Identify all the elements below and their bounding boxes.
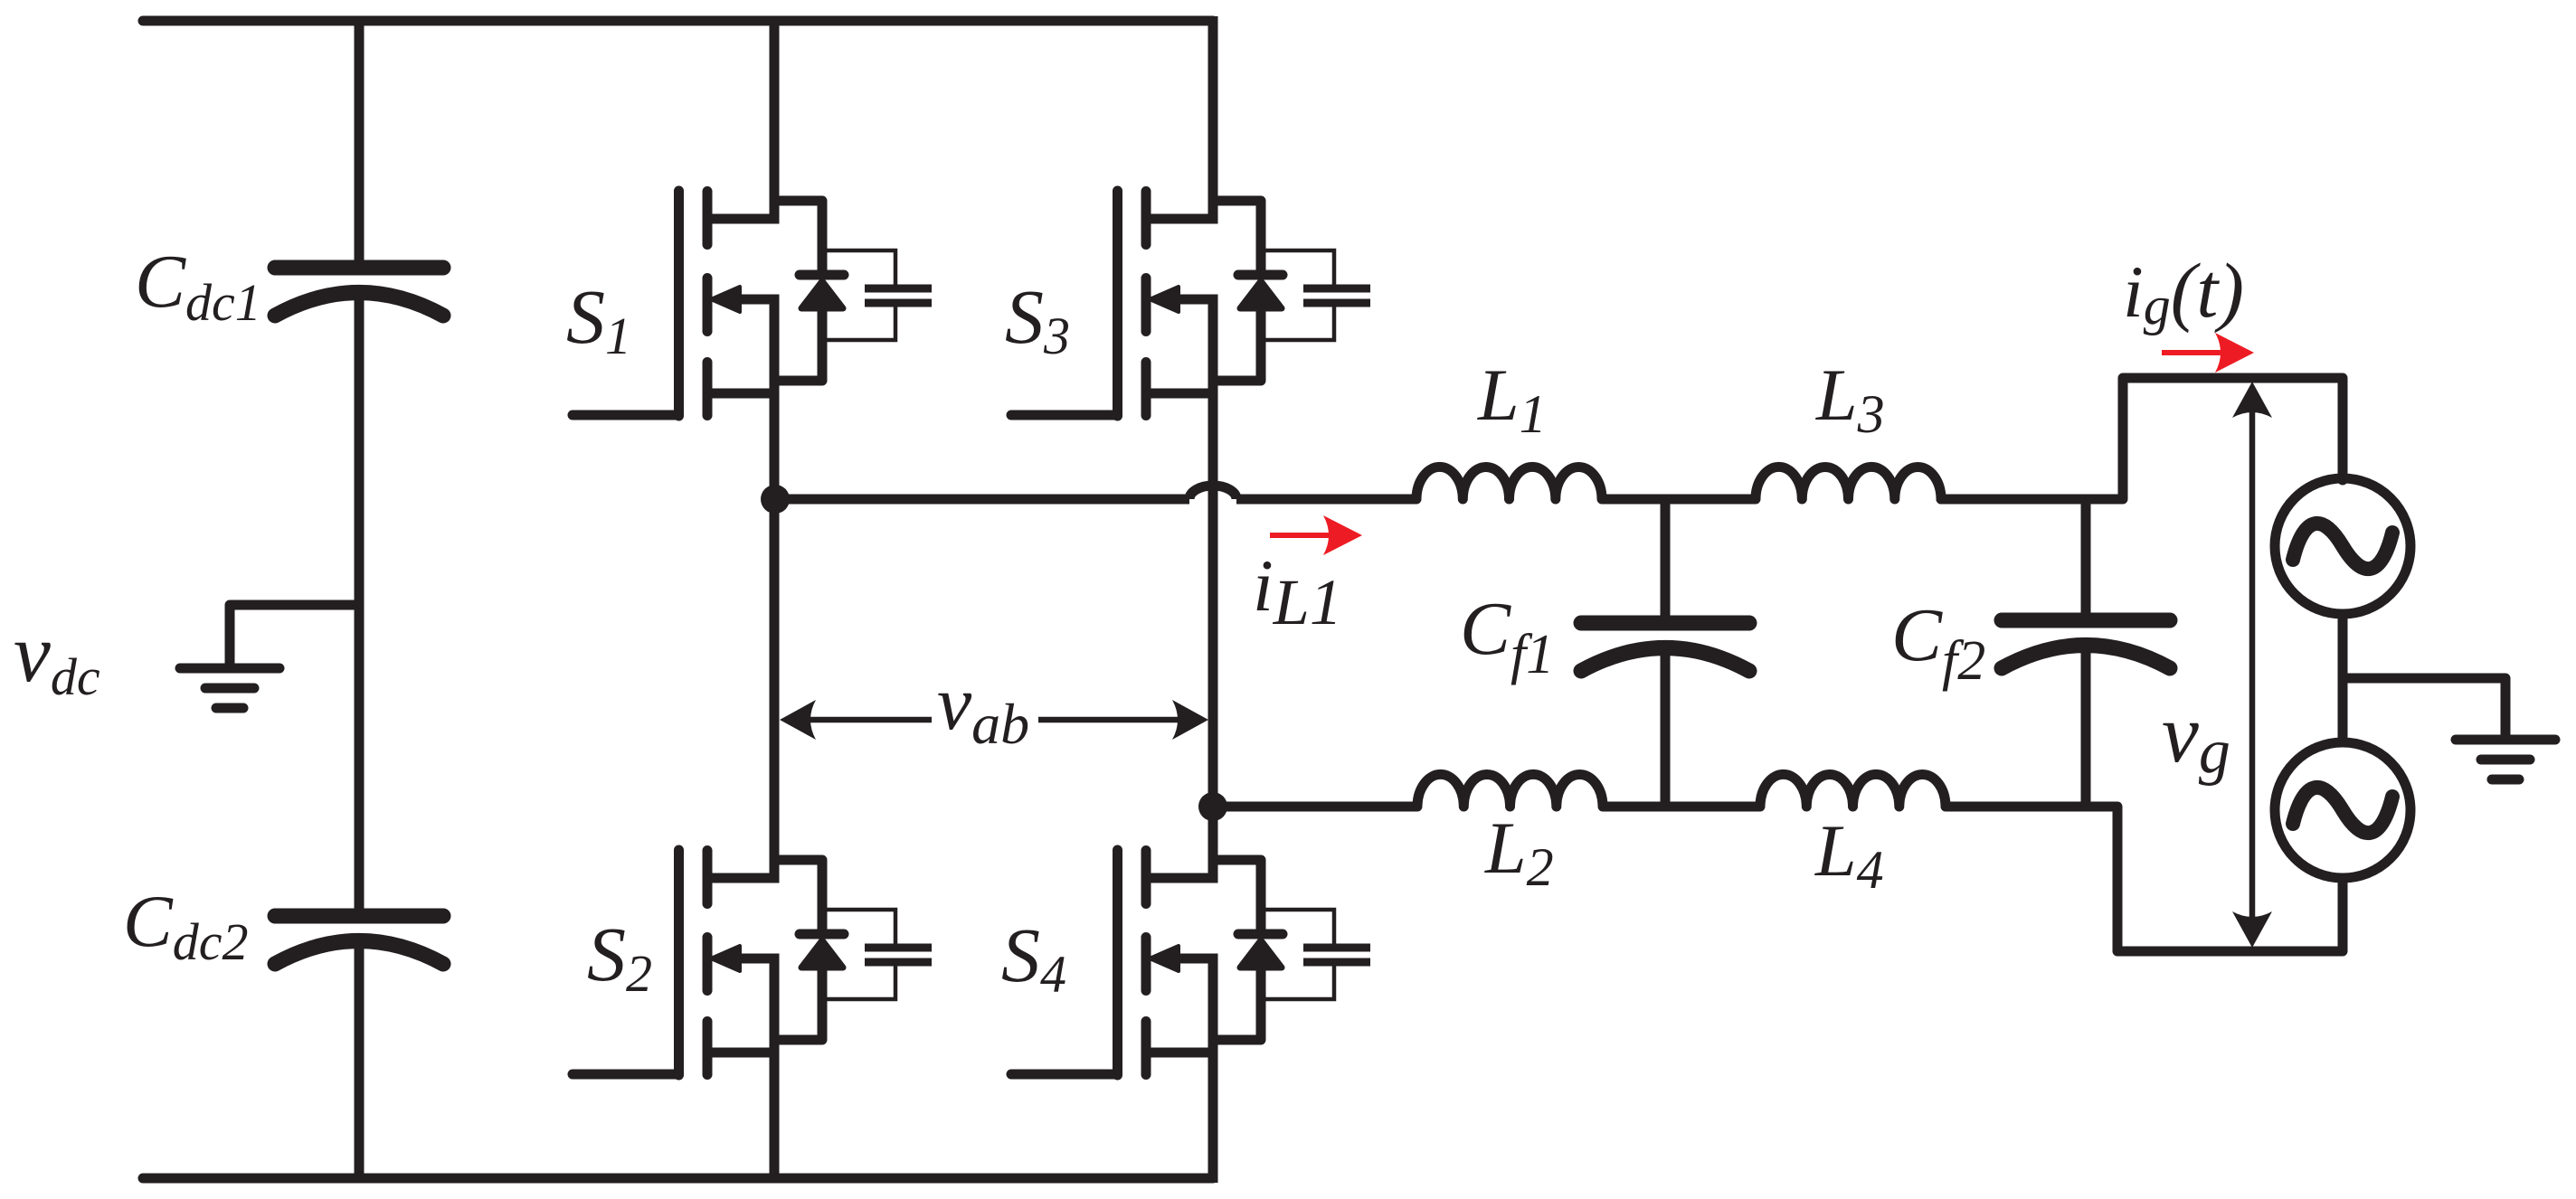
inductor L3 — [1756, 467, 1941, 499]
ac source vg top — [2275, 478, 2410, 614]
svg-text:L1: L1 — [1477, 354, 1547, 444]
wire: right leg drain of S3 — [1208, 16, 1218, 223]
vab dimension line right — [1038, 717, 1178, 723]
wire: Cf2 branch lower — [2081, 643, 2091, 807]
wire: grid loop bottom — [2080, 807, 2343, 951]
wire: node a to hop — [775, 495, 1189, 505]
svg-text:L2: L2 — [1484, 807, 1554, 897]
wire: Cf2 branch upper — [2081, 499, 2091, 615]
wire: right leg node b to S4 drain — [1208, 807, 1218, 883]
node a junction dot — [761, 485, 790, 514]
wire: dc-link branch lower — [355, 939, 365, 1183]
capacitor Cf1 — [1581, 623, 1749, 671]
transistor S4 — [1011, 850, 1370, 1075]
wire: L3 to grid loop corner — [1941, 378, 2343, 499]
red arrow iL1 — [1270, 533, 1330, 538]
svg-text:vdc: vdc — [14, 607, 100, 706]
ground (dc midpoint) — [180, 668, 279, 708]
capacitor Cdc1 — [275, 268, 443, 316]
svg-text:S1: S1 — [566, 273, 631, 365]
inductor L1 — [1416, 467, 1602, 499]
wire: between ac sources — [2338, 610, 2348, 746]
svg-text:Cf1: Cf1 — [1460, 587, 1554, 685]
svg-text:vab: vab — [937, 659, 1029, 756]
svg-text:S2: S2 — [587, 911, 652, 1003]
svg-text:Cf2: Cf2 — [1891, 593, 1985, 692]
bottom rail (- dc bus) — [143, 1174, 1213, 1184]
vg dimension bottom arrowhead — [2232, 911, 2272, 948]
wire: dc-link branch upper — [355, 16, 365, 262]
wire: left leg node a to S2 drain — [770, 499, 780, 883]
vab dimension line left — [810, 717, 932, 723]
wire: left leg S1 source to node a — [770, 393, 780, 504]
svg-text:iL1: iL1 — [1253, 544, 1342, 638]
ground (grid neutral) — [2456, 740, 2555, 779]
wire: dc-link branch middle — [355, 290, 365, 911]
vab dimension left arrowhead — [780, 700, 816, 740]
inductor L2 — [1417, 774, 1603, 807]
svg-text:L4: L4 — [1814, 809, 1884, 900]
wire: hop to L1 — [1236, 495, 1416, 505]
capacitor Cdc2 — [275, 916, 443, 964]
ac source vg bottom — [2275, 742, 2410, 878]
wire: Cf1 branch lower — [1661, 646, 1671, 807]
vg dimension line — [2249, 409, 2256, 920]
inductor L4 — [1760, 774, 1946, 807]
wire: ground tap — [230, 605, 359, 663]
svg-text:Cdc2: Cdc2 — [123, 880, 248, 971]
vab dimension right arrowhead — [1172, 700, 1208, 740]
wire: node b to L2 — [1213, 802, 1417, 812]
svg-text:S3: S3 — [1005, 273, 1070, 365]
wire: L4 to Cf2 bottom — [1946, 802, 2086, 812]
wire: right leg S4 source to bottom rail — [1208, 1053, 1218, 1183]
transistor S3 — [1011, 191, 1370, 416]
wire: L1 to L3 — [1602, 495, 1756, 505]
wire: ground tap right — [2343, 678, 2505, 734]
capacitor Cf2 — [2002, 620, 2170, 668]
node b junction dot — [1198, 792, 1227, 821]
transistor S2 — [573, 850, 932, 1075]
wire hop over right leg — [1189, 486, 1236, 499]
svg-text:vg: vg — [2162, 687, 2230, 787]
svg-text:L3: L3 — [1815, 354, 1885, 444]
wire: left leg drain of S1 — [770, 16, 780, 223]
vg dimension top arrowhead — [2232, 382, 2272, 418]
svg-text:ig(t): ig(t) — [2123, 247, 2244, 335]
wire: L2 to L4 — [1603, 802, 1760, 812]
transistor S1 — [573, 191, 932, 416]
svg-text:Cdc1: Cdc1 — [135, 240, 261, 332]
wire: right leg S3 source to node b — [1208, 393, 1218, 812]
top rail (+ dc bus) — [143, 16, 1213, 26]
red arrow ig — [2162, 350, 2221, 355]
wire: Cf1 branch upper — [1661, 499, 1671, 618]
svg-text:S4: S4 — [1001, 911, 1066, 1004]
wire: left leg S2 source to bottom rail — [770, 1053, 780, 1178]
